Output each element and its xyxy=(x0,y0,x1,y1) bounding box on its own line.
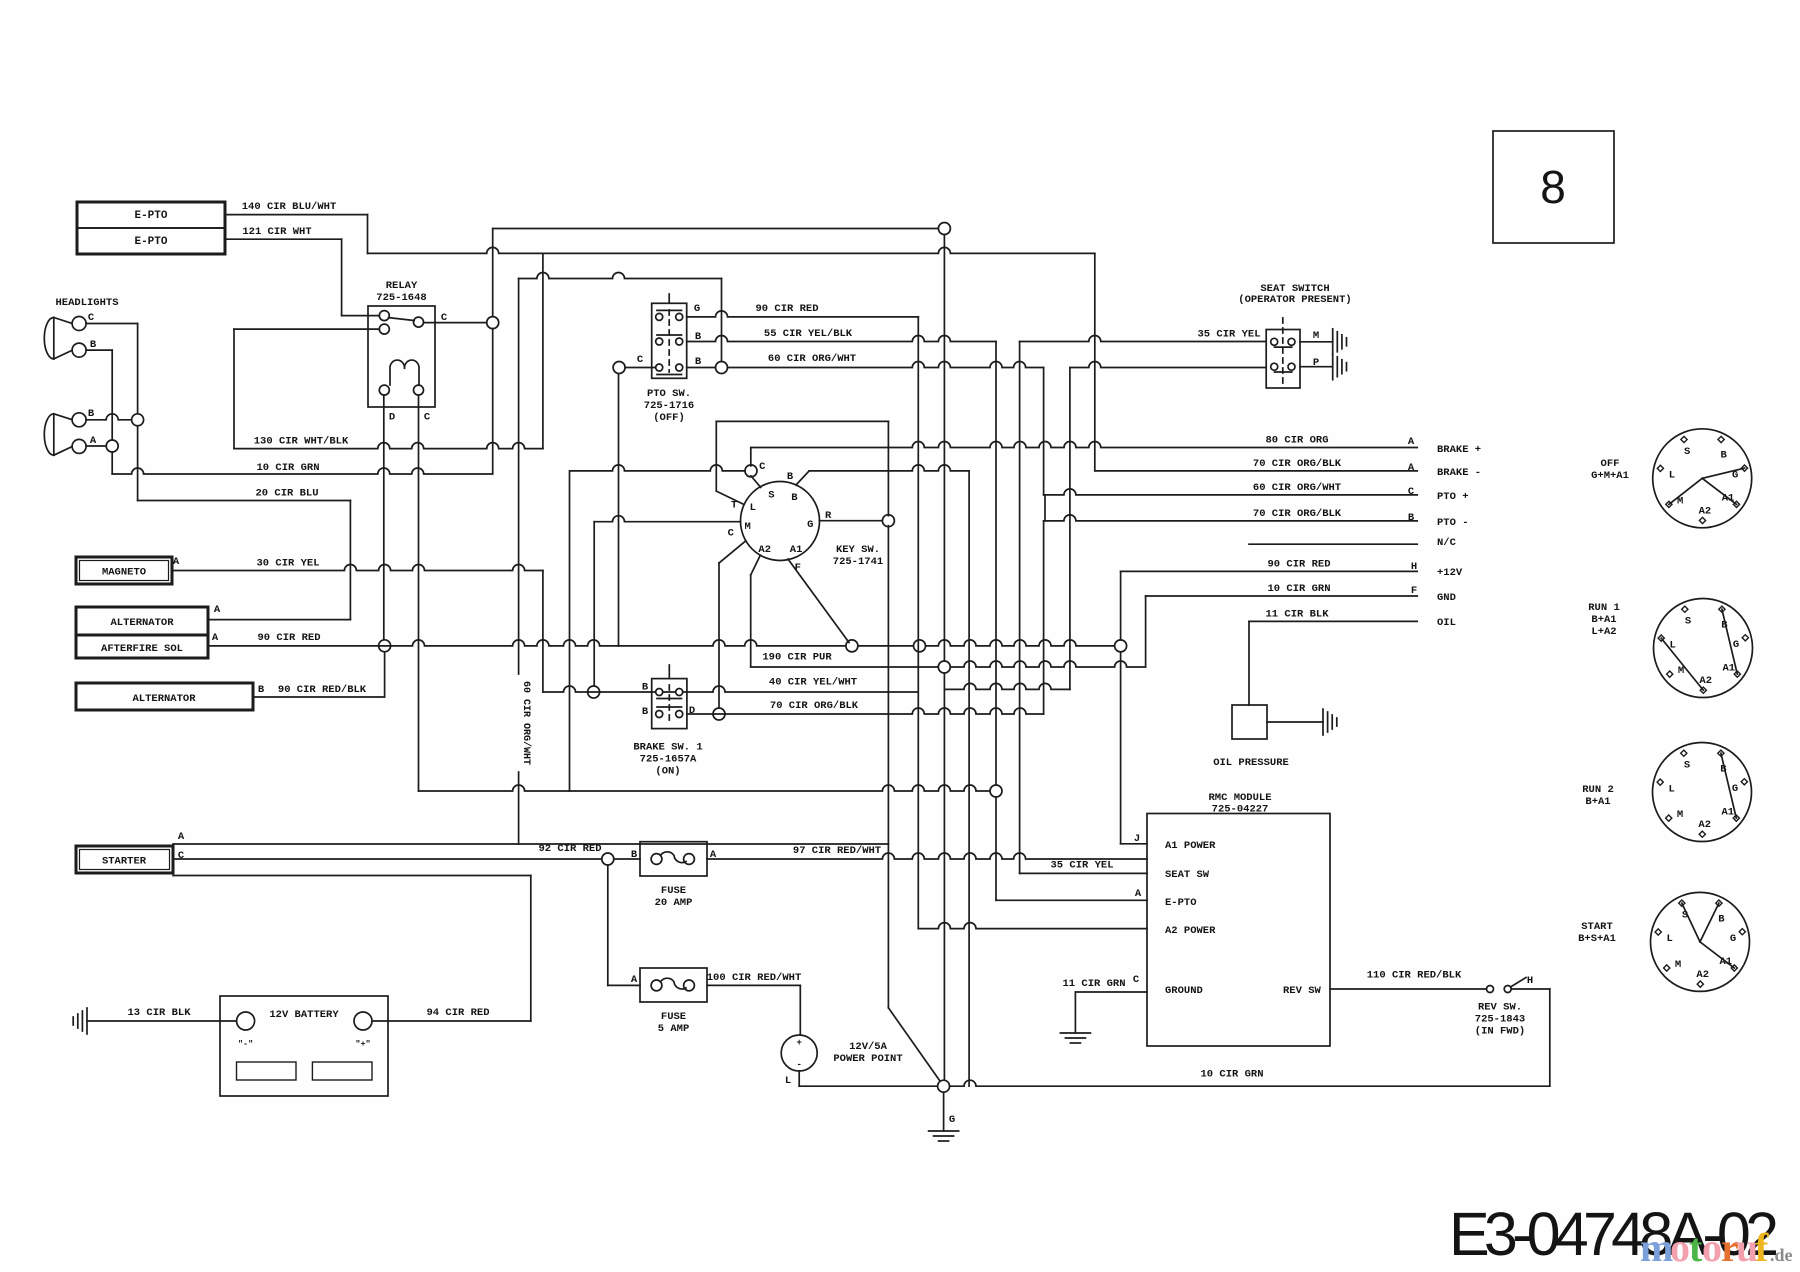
svg-text:110 CIR RED/BLK: 110 CIR RED/BLK xyxy=(1367,970,1462,982)
svg-text:725-1716: 725-1716 xyxy=(644,400,694,412)
svg-text:FUSE: FUSE xyxy=(661,885,686,897)
svg-text:REV SW: REV SW xyxy=(1283,985,1322,997)
svg-text:A2: A2 xyxy=(1698,819,1711,831)
svg-text:START: START xyxy=(1581,921,1613,933)
svg-text:+12V: +12V xyxy=(1437,567,1463,579)
svg-text:60 CIR ORG/WHT: 60 CIR ORG/WHT xyxy=(1253,482,1341,494)
svg-text:70 CIR ORG/BLK: 70 CIR ORG/BLK xyxy=(1253,508,1342,520)
svg-text:GND: GND xyxy=(1437,592,1456,604)
svg-text:(OFF): (OFF) xyxy=(653,412,685,424)
svg-text:35 CIR YEL: 35 CIR YEL xyxy=(1197,329,1260,341)
svg-text:8: 8 xyxy=(1540,161,1566,213)
svg-text:o: o xyxy=(1702,1225,1722,1270)
svg-text:10 CIR GRN: 10 CIR GRN xyxy=(1200,1069,1263,1081)
svg-text:60 CIR ORG/WHT: 60 CIR ORG/WHT xyxy=(768,353,856,365)
svg-text:A2: A2 xyxy=(1699,505,1712,517)
svg-text:B+S+A1: B+S+A1 xyxy=(1578,933,1616,945)
svg-text:S: S xyxy=(1684,760,1690,772)
svg-text:OIL: OIL xyxy=(1437,617,1456,629)
svg-text:5 AMP: 5 AMP xyxy=(658,1023,690,1035)
svg-text:725-1657A: 725-1657A xyxy=(640,754,697,766)
svg-text:M: M xyxy=(1677,809,1683,821)
svg-text:12V/5A: 12V/5A xyxy=(849,1041,888,1053)
svg-text:-: - xyxy=(796,1060,801,1070)
svg-text:11 CIR GRN: 11 CIR GRN xyxy=(1062,978,1125,990)
svg-text:B: B xyxy=(88,408,95,420)
svg-text:G: G xyxy=(1732,783,1738,795)
svg-text:90 CIR RED: 90 CIR RED xyxy=(257,632,320,644)
svg-text:97 CIR RED/WHT: 97 CIR RED/WHT xyxy=(793,845,881,857)
svg-text:A1 POWER: A1 POWER xyxy=(1165,840,1216,852)
svg-text:C: C xyxy=(88,312,95,324)
svg-text:F: F xyxy=(1411,585,1417,597)
svg-text:C: C xyxy=(178,850,185,862)
svg-text:190 CIR PUR: 190 CIR PUR xyxy=(762,652,832,664)
svg-text:B: B xyxy=(1718,913,1725,925)
svg-text:PTO -: PTO - xyxy=(1437,517,1469,529)
svg-text:70 CIR ORG/BLK: 70 CIR ORG/BLK xyxy=(770,700,859,712)
svg-text:m: m xyxy=(1640,1225,1673,1270)
svg-text:70 CIR ORG/BLK: 70 CIR ORG/BLK xyxy=(1253,458,1342,470)
svg-text:L: L xyxy=(1669,783,1675,795)
svg-text:f: f xyxy=(1755,1225,1769,1270)
svg-text:121 CIR WHT: 121 CIR WHT xyxy=(242,226,311,238)
svg-text:10 CIR GRN: 10 CIR GRN xyxy=(256,462,319,474)
svg-text:o: o xyxy=(1670,1225,1690,1270)
svg-text:C: C xyxy=(424,412,431,424)
svg-text:A1: A1 xyxy=(1721,806,1734,818)
svg-text:G: G xyxy=(807,519,813,531)
svg-text:A: A xyxy=(631,974,638,986)
svg-text:OIL PRESSURE: OIL PRESSURE xyxy=(1213,757,1289,769)
svg-text:PTO +: PTO + xyxy=(1437,491,1469,503)
svg-text:S: S xyxy=(1684,446,1690,458)
svg-text:140 CIR BLU/WHT: 140 CIR BLU/WHT xyxy=(242,201,337,213)
svg-text:80 CIR ORG: 80 CIR ORG xyxy=(1265,435,1328,447)
svg-text:130 CIR WHT/BLK: 130 CIR WHT/BLK xyxy=(254,436,349,448)
svg-text:ALTERNATOR: ALTERNATOR xyxy=(110,617,174,629)
svg-text:ALTERNATOR: ALTERNATOR xyxy=(132,693,196,705)
svg-text:L+A2: L+A2 xyxy=(1591,626,1616,638)
svg-text:A: A xyxy=(178,831,185,843)
svg-text:13 CIR BLK: 13 CIR BLK xyxy=(127,1007,191,1019)
svg-text:D: D xyxy=(689,705,695,717)
svg-text:A2: A2 xyxy=(758,544,771,556)
svg-text:55 CIR YEL/BLK: 55 CIR YEL/BLK xyxy=(764,328,853,340)
svg-text:REV SW.: REV SW. xyxy=(1478,1002,1522,1014)
svg-text:BRAKE -: BRAKE - xyxy=(1437,467,1481,479)
svg-text:725-1843: 725-1843 xyxy=(1475,1014,1525,1026)
svg-text:92 CIR RED: 92 CIR RED xyxy=(538,843,601,855)
svg-text:90 CIR RED: 90 CIR RED xyxy=(1267,558,1330,570)
svg-text:725-04227: 725-04227 xyxy=(1212,804,1269,816)
svg-text:t: t xyxy=(1689,1225,1703,1270)
svg-text:B+A1: B+A1 xyxy=(1591,614,1616,626)
svg-text:E-PTO: E-PTO xyxy=(1165,897,1197,909)
svg-text:G: G xyxy=(694,303,700,315)
svg-text:C: C xyxy=(759,461,766,473)
svg-text:E-PTO: E-PTO xyxy=(134,236,167,248)
svg-text:B: B xyxy=(1408,512,1415,524)
svg-text:HEADLIGHTS: HEADLIGHTS xyxy=(55,297,118,309)
svg-text:M: M xyxy=(1678,665,1684,677)
svg-text:"-": "-" xyxy=(238,1039,253,1049)
svg-text:.de: .de xyxy=(1770,1245,1793,1265)
svg-text:S: S xyxy=(1685,616,1691,628)
svg-text:B: B xyxy=(791,492,798,504)
svg-text:A: A xyxy=(1408,462,1415,474)
svg-text:G: G xyxy=(949,1114,955,1126)
svg-text:90 CIR RED: 90 CIR RED xyxy=(755,303,818,315)
svg-text:M: M xyxy=(1313,330,1319,342)
svg-text:N/C: N/C xyxy=(1437,537,1457,549)
svg-text:60 CIR ORG/WHT: 60 CIR ORG/WHT xyxy=(520,681,532,765)
svg-text:B: B xyxy=(787,471,794,483)
svg-text:100 CIR RED/WHT: 100 CIR RED/WHT xyxy=(707,972,802,984)
svg-text:10 CIR GRN: 10 CIR GRN xyxy=(1267,583,1330,595)
svg-text:D: D xyxy=(389,412,395,424)
svg-text:C: C xyxy=(637,354,644,366)
svg-text:M: M xyxy=(1675,959,1681,971)
svg-text:B: B xyxy=(631,849,638,861)
svg-text:20 CIR BLU: 20 CIR BLU xyxy=(255,488,318,500)
svg-text:GROUND: GROUND xyxy=(1165,985,1203,997)
svg-text:A2: A2 xyxy=(1696,969,1709,981)
svg-text:A1: A1 xyxy=(790,544,803,556)
svg-text:+: + xyxy=(796,1038,801,1048)
svg-text:90 CIR RED/BLK: 90 CIR RED/BLK xyxy=(278,684,367,696)
svg-text:SEAT SW: SEAT SW xyxy=(1165,869,1210,881)
svg-text:MAGNETO: MAGNETO xyxy=(102,567,146,579)
svg-text:A: A xyxy=(173,556,180,568)
svg-text:B: B xyxy=(258,684,265,696)
svg-text:AFTERFIRE SOL: AFTERFIRE SOL xyxy=(101,643,183,655)
svg-text:(ON): (ON) xyxy=(655,766,680,778)
svg-text:RUN 1: RUN 1 xyxy=(1588,602,1620,614)
svg-text:G+M+A1: G+M+A1 xyxy=(1591,470,1629,482)
svg-text:B+A1: B+A1 xyxy=(1585,796,1610,808)
svg-text:L: L xyxy=(785,1075,791,1087)
svg-text:40 CIR YEL/WHT: 40 CIR YEL/WHT xyxy=(769,676,857,688)
svg-text:RMC MODULE: RMC MODULE xyxy=(1208,792,1271,804)
svg-text:C: C xyxy=(728,528,735,540)
svg-text:A2 POWER: A2 POWER xyxy=(1165,925,1216,937)
svg-text:A: A xyxy=(1135,888,1142,900)
svg-text:35 CIR YEL: 35 CIR YEL xyxy=(1050,860,1113,872)
svg-text:G: G xyxy=(1733,639,1739,651)
svg-text:B: B xyxy=(90,339,97,351)
svg-text:BRAKE +: BRAKE + xyxy=(1437,444,1481,456)
svg-text:KEY SW.: KEY SW. xyxy=(836,544,880,556)
svg-text:(IN FWD): (IN FWD) xyxy=(1475,1026,1525,1038)
svg-text:STARTER: STARTER xyxy=(102,856,147,868)
svg-text:B: B xyxy=(642,706,649,718)
svg-text:E-PTO: E-PTO xyxy=(134,210,167,222)
svg-text:B: B xyxy=(642,681,649,693)
svg-text:30 CIR YEL: 30 CIR YEL xyxy=(256,558,319,570)
svg-text:11 CIR BLK: 11 CIR BLK xyxy=(1265,608,1329,620)
svg-text:A1: A1 xyxy=(1722,662,1735,674)
svg-text:L: L xyxy=(1667,933,1673,945)
svg-text:L: L xyxy=(750,502,756,514)
svg-text:G: G xyxy=(1730,933,1736,945)
svg-text:RELAY: RELAY xyxy=(386,280,418,292)
svg-text:M: M xyxy=(745,521,751,533)
svg-text:L: L xyxy=(1669,470,1675,482)
svg-text:RUN 2: RUN 2 xyxy=(1582,784,1614,796)
svg-text:B: B xyxy=(1720,450,1727,462)
svg-text:POWER POINT: POWER POINT xyxy=(833,1053,902,1065)
svg-text:"+": "+" xyxy=(355,1039,370,1049)
svg-text:A: A xyxy=(214,604,221,616)
svg-text:H: H xyxy=(1527,975,1533,987)
svg-text:B: B xyxy=(695,356,702,368)
svg-text:20 AMP: 20 AMP xyxy=(655,897,693,909)
svg-text:A2: A2 xyxy=(1699,675,1712,687)
svg-text:A: A xyxy=(1408,436,1415,448)
svg-text:A: A xyxy=(212,632,219,644)
svg-text:C: C xyxy=(1133,974,1140,986)
svg-text:PTO SW.: PTO SW. xyxy=(647,388,691,400)
svg-text:OFF: OFF xyxy=(1601,458,1620,470)
svg-text:C: C xyxy=(1408,486,1415,498)
svg-text:(OPERATOR PRESENT): (OPERATOR PRESENT) xyxy=(1238,294,1351,306)
svg-text:S: S xyxy=(768,490,774,502)
svg-text:725-1741: 725-1741 xyxy=(833,556,883,568)
svg-text:H: H xyxy=(1411,561,1417,573)
svg-text:12V BATTERY: 12V BATTERY xyxy=(269,1009,339,1021)
svg-text:FUSE: FUSE xyxy=(661,1011,686,1023)
svg-text:725-1648: 725-1648 xyxy=(376,292,426,304)
svg-text:94 CIR RED: 94 CIR RED xyxy=(426,1007,489,1019)
svg-text:BRAKE SW. 1: BRAKE SW. 1 xyxy=(633,742,702,754)
